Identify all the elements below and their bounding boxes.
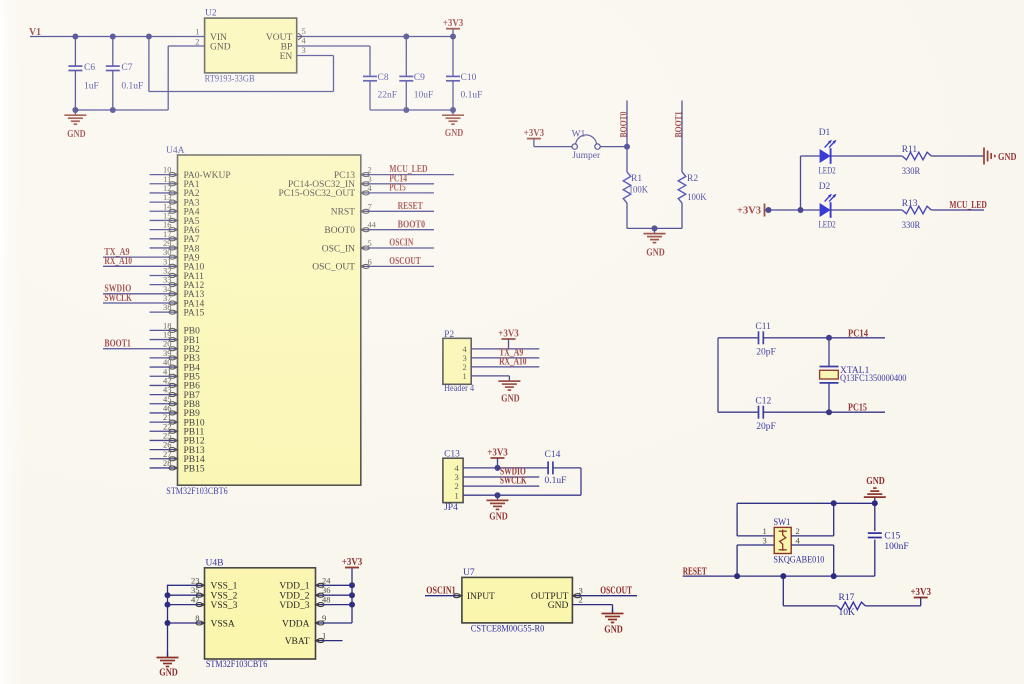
svg-text:0.1uF: 0.1uF <box>121 82 143 92</box>
svg-text:VSS_3: VSS_3 <box>211 601 238 611</box>
svg-text:CSTCE8M00G55-R0: CSTCE8M00G55-R0 <box>471 624 545 634</box>
svg-text:100K: 100K <box>687 193 707 203</box>
svg-text:1: 1 <box>455 490 459 500</box>
svg-text:+3V3: +3V3 <box>524 128 545 139</box>
svg-text:C9: C9 <box>414 73 425 83</box>
svg-text:U7: U7 <box>463 568 475 578</box>
svg-text:VDDA: VDDA <box>282 619 310 629</box>
svg-text:SKQGABE010: SKQGABE010 <box>773 555 824 565</box>
svg-text:1: 1 <box>322 631 326 641</box>
svg-text:OSCIN1: OSCIN1 <box>426 586 455 597</box>
svg-text:2: 2 <box>195 36 199 46</box>
svg-text:VBAT: VBAT <box>285 637 310 647</box>
svg-text:RESET: RESET <box>398 201 423 212</box>
svg-text:330R: 330R <box>902 221 921 231</box>
svg-text:INPUT: INPUT <box>467 592 495 602</box>
svg-text:LED2: LED2 <box>819 167 836 177</box>
svg-text:U4B: U4B <box>206 558 224 568</box>
svg-text:PC14: PC14 <box>848 328 868 339</box>
svg-text:10K: 10K <box>839 608 856 618</box>
svg-text:GND: GND <box>604 624 623 635</box>
svg-text:SWCLK: SWCLK <box>104 293 132 304</box>
svg-text:1: 1 <box>763 526 767 536</box>
svg-text:6: 6 <box>368 256 372 266</box>
svg-text:RT9193-33GB: RT9193-33GB <box>205 75 255 85</box>
svg-text:+3V3: +3V3 <box>342 557 363 568</box>
svg-text:D2: D2 <box>819 182 831 192</box>
svg-text:GND: GND <box>445 128 464 139</box>
svg-text:1uF: 1uF <box>84 82 99 92</box>
svg-text:0.1uF: 0.1uF <box>545 476 567 486</box>
svg-text:GND: GND <box>210 43 231 53</box>
svg-text:23: 23 <box>191 575 200 585</box>
svg-text:GND: GND <box>866 476 885 487</box>
svg-text:STM32F103CBT6: STM32F103CBT6 <box>206 660 268 670</box>
svg-text:GND: GND <box>501 393 520 404</box>
svg-text:D1: D1 <box>819 128 831 138</box>
svg-text:OSC_OUT: OSC_OUT <box>312 263 355 273</box>
svg-text:20pF: 20pF <box>756 422 776 432</box>
svg-text:VOUT: VOUT <box>266 33 293 43</box>
svg-text:OSCOUT: OSCOUT <box>600 585 632 596</box>
svg-text:GND: GND <box>159 668 178 679</box>
svg-text:RX_A10: RX_A10 <box>104 256 132 267</box>
svg-text:1: 1 <box>463 371 467 381</box>
svg-text:GND: GND <box>548 601 569 611</box>
svg-text:C10: C10 <box>461 73 477 83</box>
svg-text:MCU_LED: MCU_LED <box>949 200 986 211</box>
svg-text:10uF: 10uF <box>414 91 434 101</box>
svg-text:24: 24 <box>322 575 331 585</box>
svg-text:C13: C13 <box>444 449 460 459</box>
svg-text:Header 4: Header 4 <box>444 384 474 394</box>
svg-text:+3V3: +3V3 <box>443 18 464 29</box>
svg-text:SWCLK: SWCLK <box>500 476 527 487</box>
svg-text:RESET: RESET <box>683 567 707 578</box>
svg-text:8: 8 <box>195 613 199 623</box>
svg-text:1: 1 <box>195 27 199 37</box>
svg-text:BP: BP <box>281 43 293 53</box>
svg-text:GND: GND <box>67 129 86 140</box>
svg-text:W1: W1 <box>572 130 586 140</box>
svg-text:BOOT0: BOOT0 <box>398 219 425 230</box>
svg-text:100nF: 100nF <box>884 542 908 552</box>
svg-text:VDD_1: VDD_1 <box>279 582 309 592</box>
svg-text:P2: P2 <box>444 330 454 340</box>
svg-text:38: 38 <box>163 302 172 312</box>
svg-text:BOOT0: BOOT0 <box>324 226 355 236</box>
svg-text:GND: GND <box>998 152 1017 163</box>
svg-text:U2: U2 <box>205 9 217 19</box>
svg-text:BOOT1: BOOT1 <box>674 111 684 137</box>
svg-text:0.1uF: 0.1uF <box>461 91 483 101</box>
svg-text:R13: R13 <box>902 199 918 209</box>
svg-text:PB15: PB15 <box>184 464 205 474</box>
svg-text:C11: C11 <box>755 322 771 332</box>
svg-text:Q13FC1350000400: Q13FC1350000400 <box>840 373 907 383</box>
svg-text:2: 2 <box>796 526 800 536</box>
svg-text:RX_A10: RX_A10 <box>499 357 526 368</box>
svg-text:BOOT1: BOOT1 <box>104 339 130 350</box>
svg-text:C6: C6 <box>84 63 95 73</box>
svg-text:SW1: SW1 <box>773 518 790 528</box>
svg-text:VIN: VIN <box>210 33 227 43</box>
svg-text:C15: C15 <box>884 532 900 542</box>
svg-text:JP4: JP4 <box>444 503 458 513</box>
svg-text:R11: R11 <box>902 145 918 155</box>
svg-text:22nF: 22nF <box>378 91 398 101</box>
svg-text:48: 48 <box>322 595 331 605</box>
svg-text:PC15: PC15 <box>389 183 406 194</box>
svg-text:C12: C12 <box>755 396 771 406</box>
svg-text:OSCOUT: OSCOUT <box>389 256 421 267</box>
svg-text:U4A: U4A <box>166 146 185 156</box>
svg-text:100K: 100K <box>629 186 649 196</box>
svg-text:LED2: LED2 <box>819 221 836 231</box>
svg-text:5: 5 <box>368 238 372 248</box>
svg-text:330R: 330R <box>902 167 921 177</box>
svg-text:GND: GND <box>489 512 508 523</box>
svg-text:C7: C7 <box>121 63 132 73</box>
svg-text:OSCIN: OSCIN <box>389 238 414 249</box>
svg-text:PC15: PC15 <box>848 402 867 413</box>
svg-text:PA15: PA15 <box>184 308 205 318</box>
svg-text:3: 3 <box>763 535 767 545</box>
svg-text:28: 28 <box>163 458 172 468</box>
svg-text:R1: R1 <box>631 174 642 184</box>
svg-text:OSC_IN: OSC_IN <box>322 244 355 254</box>
svg-text:7: 7 <box>368 201 372 211</box>
svg-text:4: 4 <box>796 535 801 545</box>
svg-text:+3V3: +3V3 <box>487 447 508 458</box>
svg-text:PC15-OSC32_OUT: PC15-OSC32_OUT <box>278 189 355 199</box>
svg-text:C14: C14 <box>545 450 561 460</box>
svg-text:C8: C8 <box>378 73 389 83</box>
svg-text:+3V3: +3V3 <box>498 328 519 339</box>
svg-text:NRST: NRST <box>331 208 355 218</box>
svg-text:R17: R17 <box>839 593 855 603</box>
svg-text:VDD_3: VDD_3 <box>279 601 309 611</box>
svg-text:47: 47 <box>191 595 200 605</box>
svg-text:STM32F103CBT6: STM32F103CBT6 <box>166 487 228 497</box>
svg-text:R2: R2 <box>687 174 698 184</box>
svg-text:2: 2 <box>579 594 583 604</box>
svg-text:20pF: 20pF <box>756 348 776 358</box>
svg-text:9: 9 <box>322 613 326 623</box>
svg-text:5: 5 <box>302 26 306 36</box>
svg-text:BOOT0: BOOT0 <box>619 111 629 137</box>
svg-text:+3V3: +3V3 <box>737 205 761 216</box>
svg-text:EN: EN <box>280 52 293 62</box>
svg-text:GND: GND <box>646 247 665 258</box>
svg-text:VSSA: VSSA <box>211 619 235 629</box>
svg-text:44: 44 <box>368 220 377 230</box>
svg-text:+3V3: +3V3 <box>910 587 931 598</box>
svg-text:VSS_1: VSS_1 <box>211 582 238 592</box>
svg-text:Jumper: Jumper <box>572 151 601 161</box>
